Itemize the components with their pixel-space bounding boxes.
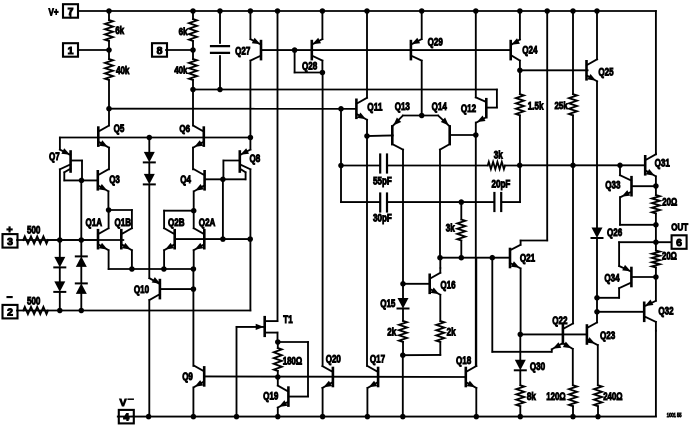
svg-text:Q13: Q13 bbox=[395, 101, 410, 113]
svg-text:Q16: Q16 bbox=[440, 279, 455, 291]
svg-text:Q5: Q5 bbox=[114, 123, 125, 135]
svg-text:30pF: 30pF bbox=[373, 213, 392, 225]
svg-text:2k: 2k bbox=[447, 327, 456, 339]
svg-text:2: 2 bbox=[7, 307, 13, 319]
svg-text:6k: 6k bbox=[179, 26, 188, 38]
svg-text:OUT: OUT bbox=[671, 222, 688, 234]
svg-text:6k: 6k bbox=[115, 25, 124, 37]
svg-text:Q8: Q8 bbox=[250, 153, 261, 165]
svg-text:20Ω: 20Ω bbox=[662, 251, 677, 263]
svg-text:Q1A: Q1A bbox=[86, 217, 103, 229]
svg-text:2k: 2k bbox=[387, 327, 396, 339]
svg-text:180Ω: 180Ω bbox=[283, 356, 303, 368]
svg-text:T1: T1 bbox=[283, 314, 292, 326]
svg-text:120Ω: 120Ω bbox=[546, 391, 566, 403]
svg-text:8k: 8k bbox=[527, 391, 536, 403]
svg-text:Q14: Q14 bbox=[432, 101, 447, 113]
svg-text:Q31: Q31 bbox=[655, 158, 670, 170]
svg-text:1: 1 bbox=[68, 45, 74, 57]
svg-text:40k: 40k bbox=[116, 65, 129, 77]
svg-text:55pF: 55pF bbox=[373, 176, 392, 188]
svg-text:Q19: Q19 bbox=[263, 391, 278, 403]
svg-text:Q25: Q25 bbox=[598, 67, 613, 79]
svg-text:+: + bbox=[7, 224, 13, 236]
svg-text:1.5k: 1.5k bbox=[528, 100, 544, 112]
svg-text:3k: 3k bbox=[446, 223, 455, 235]
svg-text:20pF: 20pF bbox=[492, 179, 511, 191]
svg-text:−: − bbox=[7, 292, 13, 304]
svg-text:Q2A: Q2A bbox=[199, 217, 216, 229]
svg-text:Q30: Q30 bbox=[530, 361, 545, 373]
svg-text:Q3: Q3 bbox=[109, 174, 120, 186]
svg-text:Q7: Q7 bbox=[49, 151, 60, 163]
svg-text:Q20: Q20 bbox=[326, 354, 341, 366]
svg-text:Q10: Q10 bbox=[134, 284, 149, 296]
svg-text:Q33: Q33 bbox=[605, 180, 620, 192]
svg-text:Q26: Q26 bbox=[607, 227, 622, 239]
svg-text:Q34: Q34 bbox=[604, 273, 619, 285]
svg-text:Q2B: Q2B bbox=[168, 217, 185, 229]
svg-text:Q4: Q4 bbox=[180, 174, 191, 186]
svg-text:Q28: Q28 bbox=[302, 61, 317, 73]
svg-text:3: 3 bbox=[7, 236, 13, 248]
svg-text:Q32: Q32 bbox=[658, 306, 673, 318]
svg-text:Q23: Q23 bbox=[600, 330, 615, 342]
svg-text:Q11: Q11 bbox=[367, 101, 382, 113]
svg-text:Q21: Q21 bbox=[520, 253, 535, 265]
svg-text:500: 500 bbox=[27, 296, 40, 308]
svg-text:Q24: Q24 bbox=[522, 44, 537, 56]
svg-text:Q12: Q12 bbox=[461, 103, 476, 115]
svg-text:500: 500 bbox=[27, 225, 40, 237]
svg-text:8: 8 bbox=[157, 45, 163, 57]
svg-text:Q15: Q15 bbox=[380, 298, 395, 310]
svg-text:25k: 25k bbox=[555, 100, 568, 112]
svg-text:1001 55: 1001 55 bbox=[667, 413, 682, 419]
svg-text:Q22: Q22 bbox=[552, 315, 567, 327]
svg-text:Q18: Q18 bbox=[456, 355, 471, 367]
svg-text:Q1B: Q1B bbox=[115, 217, 132, 229]
svg-text:Q6: Q6 bbox=[179, 123, 190, 135]
svg-text:20Ω: 20Ω bbox=[662, 197, 677, 209]
svg-text:Q27: Q27 bbox=[235, 46, 250, 58]
svg-text:3k: 3k bbox=[494, 150, 503, 162]
svg-text:4: 4 bbox=[123, 412, 129, 424]
svg-text:V+: V+ bbox=[49, 7, 59, 19]
svg-text:Q17: Q17 bbox=[370, 354, 385, 366]
svg-text:7: 7 bbox=[68, 6, 74, 18]
svg-text:V: V bbox=[120, 397, 127, 409]
svg-text:Q29: Q29 bbox=[428, 36, 443, 48]
svg-text:6: 6 bbox=[676, 237, 682, 249]
svg-text:240Ω: 240Ω bbox=[603, 391, 623, 403]
svg-text:40k: 40k bbox=[174, 65, 187, 77]
svg-text:Q9: Q9 bbox=[182, 371, 193, 383]
